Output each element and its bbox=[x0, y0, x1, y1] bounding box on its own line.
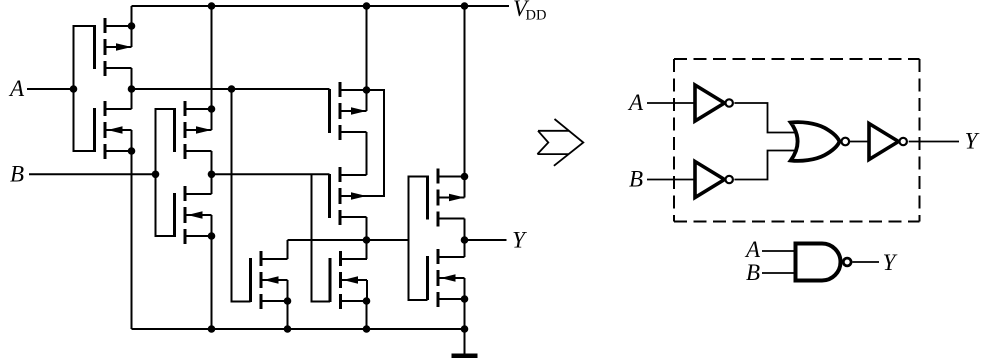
wire NAND input A lead bbox=[762, 250, 796, 252]
wire node Abar to QP3 gate bbox=[132, 88, 330, 90]
wire output Y lead (gate diagram) bbox=[909, 141, 959, 143]
wire ground rail bbox=[132, 328, 465, 330]
transistor QP3 (PMOS, NOR pull-up top) bbox=[330, 82, 367, 140]
svg-text:DD: DD bbox=[526, 8, 547, 24]
label Y (NAND output) bbox=[883, 250, 898, 275]
transistor QP4 (PMOS, NOR pull-up bottom) bbox=[330, 167, 367, 225]
label B (NAND input) bbox=[746, 260, 760, 285]
node QP2 source dot bbox=[208, 105, 216, 113]
wire QN3 gate riser bbox=[232, 89, 251, 302]
transistor QN4 (NMOS, NOR pull-down right) bbox=[330, 251, 367, 309]
inverter U4 (output) bbox=[869, 124, 907, 160]
svg-text:B: B bbox=[629, 167, 643, 192]
wire QN3 drain to NOR bus bbox=[287, 240, 289, 259]
wire QP5 source to VDD bbox=[464, 6, 466, 177]
node Bbar (B inverter output) bbox=[208, 171, 216, 179]
transistor QP5 (PMOS, output inverter) bbox=[428, 169, 465, 227]
node QN3 ground junction bbox=[284, 325, 292, 333]
wire QN1 drain to node Abar bbox=[131, 89, 133, 109]
wire QN5 drain to node Y bbox=[464, 240, 466, 257]
wire QP1 drain to node Abar bbox=[131, 68, 133, 89]
wire NOR output bus bbox=[288, 239, 409, 241]
svg-text:B: B bbox=[10, 162, 24, 187]
node QP3 source dot bbox=[363, 86, 371, 94]
node input B junction bbox=[152, 171, 160, 179]
wire U1 output to U3 top input bbox=[734, 103, 797, 133]
wire QP3 source to VDD bbox=[366, 6, 368, 90]
wire QP2 source to VDD bbox=[211, 6, 213, 109]
node QN5 source dot bbox=[461, 295, 469, 303]
transistor QN2 (NMOS, B inverter) bbox=[175, 186, 212, 244]
wire U3 output to U4 input bbox=[850, 141, 870, 143]
label Y (output, left schematic) bbox=[512, 228, 527, 253]
svg-text:A: A bbox=[8, 76, 25, 101]
wire input B lead (gate diagram) bbox=[647, 179, 695, 181]
wire QP4 drain to NOR output bus bbox=[366, 217, 368, 240]
node VDD junction dot 1 bbox=[208, 2, 216, 10]
svg-text:A: A bbox=[744, 237, 761, 262]
wire input B lead bbox=[29, 173, 156, 175]
wire QN4 drain to NOR bus bbox=[366, 240, 368, 259]
transistor QP2 (PMOS, B inverter) bbox=[175, 101, 212, 159]
transistor QN3 (NMOS, NOR pull-down left) bbox=[251, 251, 288, 309]
wire U2 output to U3 bottom input bbox=[734, 151, 797, 180]
wire QP5 drain to node Y bbox=[464, 219, 466, 241]
wire QN3 source to ground bbox=[287, 301, 289, 329]
label VDD bbox=[513, 0, 546, 24]
svg-text:Y: Y bbox=[883, 250, 898, 275]
node Abar tee to QN3 gate bbox=[228, 85, 236, 93]
inverter U1 (input A) bbox=[695, 85, 733, 121]
wire QN1 source to ground bbox=[131, 151, 133, 329]
wire inverter-A gate bracket bbox=[74, 26, 95, 151]
dashed equivalence box bbox=[674, 59, 920, 222]
node QN1 source dot bbox=[128, 147, 136, 155]
node QN4 source dot bbox=[363, 297, 371, 305]
wire QN5 source to ground bbox=[464, 299, 466, 329]
NOR gate U3 bbox=[791, 122, 849, 161]
label A (NAND input) bbox=[744, 237, 761, 262]
label A (input, left schematic) bbox=[8, 76, 25, 101]
node input A junction bbox=[70, 85, 78, 93]
node Y (left schematic output) bbox=[461, 236, 469, 244]
svg-text:B: B bbox=[746, 260, 760, 285]
node NOR output junction bbox=[363, 236, 371, 244]
wire ground stem bbox=[464, 329, 466, 354]
wire QP1 source to VDD bbox=[131, 6, 133, 26]
wire output-inverter gate bracket bbox=[409, 177, 428, 301]
label Y (gate diagram) bbox=[965, 129, 980, 154]
wire QN4 source to ground bbox=[366, 301, 368, 329]
svg-text:Y: Y bbox=[965, 129, 980, 154]
wire NAND output lead bbox=[853, 261, 880, 263]
wire input A lead bbox=[27, 88, 74, 90]
wire VDD rail bbox=[132, 5, 510, 7]
wire QN4 gate riser bbox=[312, 174, 331, 301]
transistor QP1 (PMOS, A inverter) bbox=[95, 18, 132, 76]
wire QN2 drain to node Bbar bbox=[211, 174, 213, 194]
ground symbol bbox=[452, 354, 478, 359]
node QP5 source dot bbox=[461, 173, 469, 181]
node QN4 ground junction bbox=[363, 325, 371, 333]
node QN2 ground junction bbox=[208, 325, 216, 333]
transistor QN1 (NMOS, A inverter) bbox=[95, 101, 132, 159]
svg-text:A: A bbox=[627, 90, 644, 115]
node QN3 source dot bbox=[284, 297, 292, 305]
node QN5 ground junction bbox=[461, 325, 469, 333]
wire QN2 source to ground bbox=[211, 236, 213, 329]
label A (gate diagram) bbox=[627, 90, 644, 115]
wire node Bbar to QP4 gate bbox=[212, 173, 330, 175]
wire output Y lead bbox=[465, 239, 507, 241]
label B (input, left schematic) bbox=[10, 162, 24, 187]
implication arrow symbol bbox=[537, 119, 583, 166]
node QN2 source dot bbox=[208, 232, 216, 240]
svg-text:Y: Y bbox=[512, 228, 527, 253]
node Abar (A inverter output) bbox=[128, 85, 136, 93]
node VDD junction dot 3 bbox=[461, 2, 469, 10]
wire NAND input B lead bbox=[762, 272, 796, 274]
label B (gate diagram) bbox=[629, 167, 643, 192]
wire QP2 drain to node Bbar bbox=[211, 151, 213, 174]
node QP1 source dot bbox=[128, 22, 136, 30]
node VDD junction dot 2 bbox=[363, 2, 371, 10]
wire QP3 drain to QP4 source (series link) bbox=[366, 132, 368, 175]
transistor QN5 (NMOS, output inverter) bbox=[428, 249, 465, 307]
wire input A lead (gate diagram) bbox=[647, 102, 695, 104]
NAND gate U5 bbox=[796, 244, 852, 281]
inverter U2 (input B) bbox=[695, 162, 733, 198]
wire QP4 body tie to VDD loop bbox=[367, 90, 385, 196]
wire inverter-B gate bracket bbox=[156, 109, 175, 236]
